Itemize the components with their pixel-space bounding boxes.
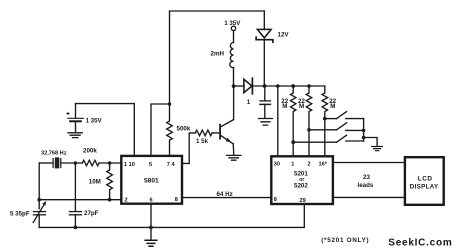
ground emitter [227,155,241,160]
wire 5201 to LCD bottom [333,196,405,198]
node 10M bottom junction [108,198,112,202]
node 22M no.2 rail junction [307,84,311,88]
wire ground rail to 5201 pin29 [39,204,304,227]
node trimmer top junction [37,198,41,202]
wire pin2 rail [39,199,121,201]
svg-text:200k: 200k [83,147,97,154]
svg-text:23: 23 [363,174,370,181]
IC U2 5201/5202 [271,156,333,204]
inductor L1 2mH [230,43,234,68]
svg-text:(*5201 ONLY): (*5201 ONLY) [321,237,369,244]
svg-text:M: M [299,103,304,110]
svg-text:LCD: LCD [418,176,433,183]
capacitor C3 27pF [74,163,76,211]
svg-text:leads: leads [358,182,374,189]
terminal 1.35V supply [231,26,235,30]
node switch tap S1 [323,117,327,121]
svg-text:1 10: 1 10 [124,162,135,168]
capacitor C1 5.35pF trimmer [33,211,45,213]
svg-text:1 35V: 1 35V [86,117,103,124]
node 200k/10M junction [108,161,112,165]
LCD display box [405,157,444,205]
ground main [145,240,157,246]
wire pin6 to ground rail [150,204,152,240]
wire crystal left vertical [38,163,40,209]
wire main rail [252,85,324,87]
ground switch bus [372,147,383,151]
wire switch common bus [363,119,365,141]
wire pin5 of 5801 up-and-right to junction [151,104,170,156]
svg-text:1 5k: 1 5k [196,138,209,145]
svg-text:DISPLAY: DISPLAY [410,183,439,190]
resistor R3 500k [167,104,173,156]
diode D1 [244,79,252,92]
wire 5201 to LCD top [333,162,405,164]
svg-text:5202: 5202 [294,183,308,190]
svg-text:M: M [330,103,335,110]
svg-text:7 4: 7 4 [167,162,176,168]
svg-text:1: 1 [291,162,294,168]
svg-text:2mH: 2mH [211,50,225,57]
svg-text:8: 8 [175,197,178,203]
diode D2 zener 12V [263,11,265,30]
wire rail to diode anode [234,85,244,87]
switch S2 [309,129,337,131]
wire pin 30 of 5201 [277,86,279,156]
ground below C2 [258,119,272,126]
ground battery [68,133,82,138]
node switch tap S3 [291,140,295,144]
svg-text:12V: 12V [278,32,290,39]
node junction dot at 500k/pin5 [168,102,172,106]
svg-text:16*: 16* [319,162,328,168]
wire terminal to inductor [233,31,235,43]
node crystal/200k/27pF junction [74,161,78,165]
svg-text:30: 30 [274,162,280,168]
resistor R1 200k [82,160,99,166]
svg-text:6: 6 [150,198,153,204]
wire 15k to base [212,132,219,134]
switch S3 [293,141,336,143]
svg-text:29: 29 [300,198,306,204]
resistor R7 10M [107,163,113,200]
transistor Q1 [219,125,221,139]
battery B1 1.35V [75,104,77,118]
wire top frame: left vertical and top rail [170,11,265,104]
wire pin4 to 15k [182,133,195,164]
node collector/inductor/rail junction [232,84,236,88]
node switch tap S2 [307,128,311,132]
node zener/cap junction [263,84,267,88]
svg-text:2: 2 [308,162,311,168]
svg-text:27pF: 27pF [84,210,99,217]
svg-text:5 35pF: 5 35pF [10,210,30,217]
svg-text:2: 2 [125,198,128,204]
node 22M no.1 rail junction [291,84,295,88]
svg-text:8: 8 [274,197,277,203]
wire inductor to rail node [233,68,235,86]
svg-text:64 Hz: 64 Hz [217,191,233,198]
wire 64Hz pin8 to pin8 [182,197,271,199]
node 27pF ground rail junction [74,226,78,230]
svg-text:5801: 5801 [144,177,159,184]
svg-text:10M: 10M [89,178,101,185]
IC U1 5801 [121,156,182,204]
svg-text:M: M [282,103,287,110]
svg-text:5: 5 [149,162,152,168]
resistor R4 22M [291,86,296,156]
resistor R2 15k [195,130,212,136]
svg-text:32,768 Hz: 32,768 Hz [41,151,67,157]
switch S1 [325,118,337,120]
wire battery to pin10 [76,104,135,156]
node pin30 rail junction [276,84,280,88]
svg-text:1: 1 [247,99,251,106]
wire 200k to pin1 [99,162,121,164]
svg-text:500k: 500k [177,126,191,133]
resistor R5 22M [306,86,311,156]
svg-text:1 35V: 1 35V [224,20,241,27]
wire bus to ground [364,138,378,147]
svg-text:SeekIC.com: SeekIC.com [388,237,452,248]
resistor R6 22M [322,86,327,156]
capacitor C2 1uF [264,86,266,100]
